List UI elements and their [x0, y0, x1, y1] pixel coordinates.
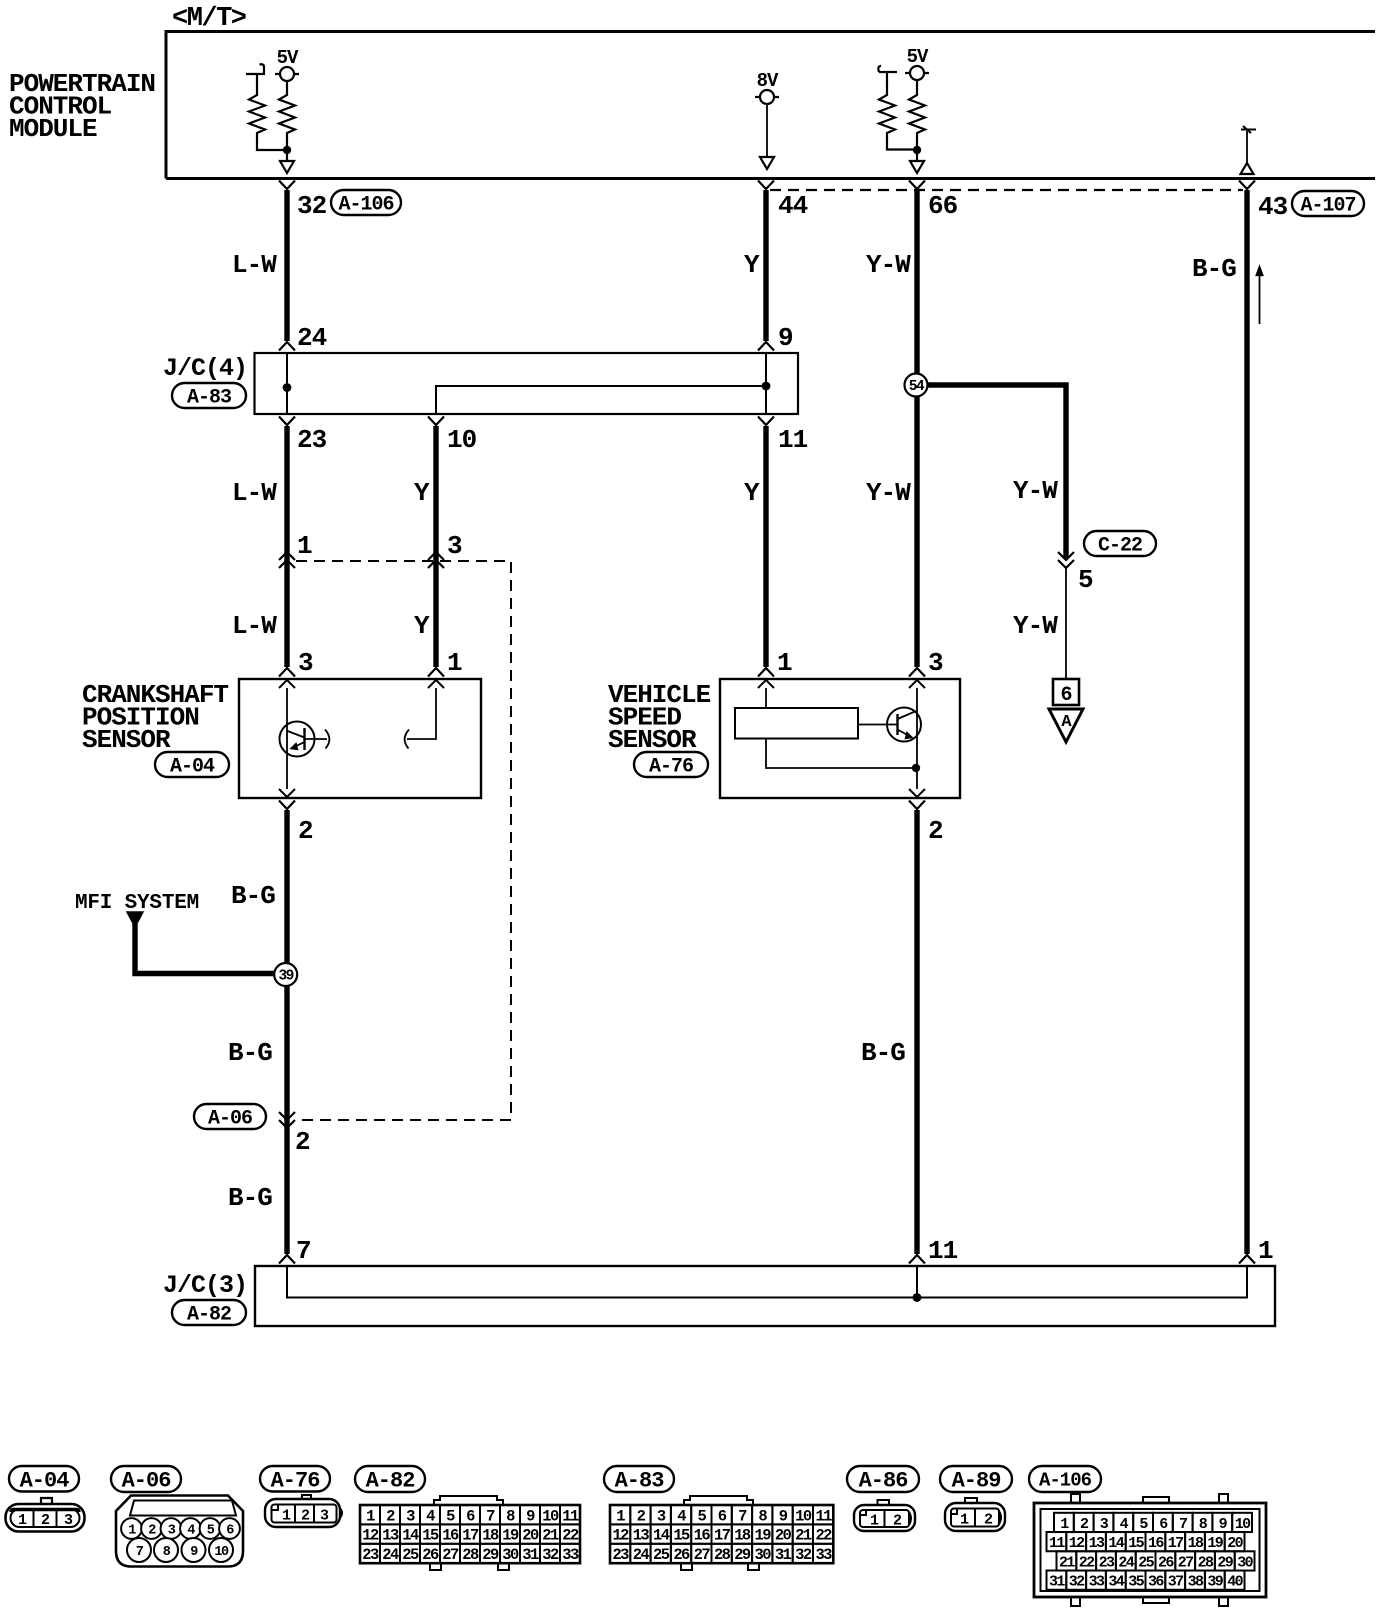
svg-text:20: 20 — [1227, 1535, 1243, 1552]
svg-text:19: 19 — [1207, 1535, 1223, 1552]
svg-text:11: 11 — [778, 425, 808, 455]
PCM input symbol at pin 43 — [1241, 126, 1256, 133]
8V supply node — [755, 96, 779, 98]
wire inside J/C(4) pin9-pin11 — [765, 353, 767, 414]
sensor internal wire pin3 through transistor — [286, 688, 288, 789]
powertrain control module box U1 — [166, 32, 1375, 179]
svg-text:A-82: A-82 — [366, 1469, 415, 1494]
svg-text:3: 3 — [447, 531, 462, 561]
speed sensor pin 2 fork (component) — [909, 789, 925, 797]
pin 44 terminal fork — [758, 181, 774, 190]
junction node in J/C(4) right — [762, 382, 771, 391]
svg-text:24: 24 — [633, 1546, 650, 1564]
junction 54 branch wire — [916, 385, 1066, 558]
pin 43 terminal fork — [1239, 181, 1255, 190]
svg-text:27: 27 — [694, 1546, 711, 1564]
sensor pin 3 fork (harness) — [279, 668, 295, 677]
svg-text:24: 24 — [1118, 1554, 1134, 1571]
svg-text:26: 26 — [422, 1546, 439, 1564]
svg-text:29: 29 — [482, 1546, 499, 1564]
bus bar in J/C(4) pin10 to pin9/11 — [436, 386, 766, 414]
svg-text:12: 12 — [362, 1527, 379, 1545]
pin 24 terminal fork — [279, 342, 295, 351]
svg-text:3: 3 — [657, 1507, 666, 1525]
wire pin3 through transistor to pin 2 — [916, 688, 918, 789]
sensor pin 2 fork (component) — [279, 789, 295, 797]
resistor R4 (PCM internal pull-up right) — [916, 80, 918, 95]
speed sensor pin 1 fork (component) — [758, 680, 774, 688]
transistor Q1 (crankshaft sensor output) — [280, 722, 315, 757]
svg-text:7: 7 — [486, 1507, 495, 1525]
speed sensor pin 1 fork (harness) — [758, 668, 774, 677]
svg-text:26: 26 — [673, 1546, 690, 1564]
svg-text:B-G: B-G — [228, 1183, 272, 1213]
svg-text:38: 38 — [1188, 1574, 1204, 1591]
wire R1 bottom to junction — [257, 136, 287, 150]
pin 7 terminal fork — [279, 1255, 295, 1264]
connector label A-82 pill — [355, 1466, 425, 1492]
wire B-G pin2 to splice 39 — [284, 810, 289, 1254]
svg-text:SENSOR: SENSOR — [608, 725, 697, 755]
svg-text:1: 1 — [1258, 1236, 1273, 1266]
svg-text:10: 10 — [1235, 1516, 1251, 1533]
transistor Q2 (speed sensor output) — [887, 708, 921, 742]
svg-text:7: 7 — [738, 1507, 747, 1525]
svg-text:A-06: A-06 — [208, 1108, 252, 1131]
svg-text:21: 21 — [542, 1527, 559, 1545]
svg-text:29: 29 — [1217, 1554, 1233, 1571]
svg-text:2: 2 — [893, 1513, 902, 1530]
junction connector J/C(3) box — [255, 1266, 1275, 1326]
resistor R1 (PCM internal pull-up left) — [246, 64, 264, 74]
PCM output arrow to pin 66 — [916, 154, 918, 161]
svg-text:27: 27 — [1178, 1554, 1193, 1571]
svg-text:A-83: A-83 — [615, 1469, 665, 1494]
svg-text:1: 1 — [297, 531, 312, 561]
svg-text:54: 54 — [909, 379, 925, 395]
svg-text:20: 20 — [522, 1527, 539, 1545]
svg-text:28: 28 — [1198, 1554, 1214, 1571]
pin 11 terminal fork — [758, 417, 774, 426]
svg-text:66: 66 — [928, 191, 958, 221]
svg-text:27: 27 — [442, 1546, 459, 1564]
connector label A-83 pill — [604, 1466, 674, 1492]
svg-text:5V: 5V — [907, 46, 929, 68]
crankshaft position sensor box A-04 — [239, 679, 481, 798]
svg-text:5V: 5V — [277, 47, 299, 69]
svg-text:28: 28 — [714, 1546, 731, 1564]
pin 23 terminal fork — [279, 417, 295, 426]
svg-text:10: 10 — [542, 1507, 559, 1525]
svg-text:9: 9 — [526, 1507, 535, 1525]
svg-text:25: 25 — [1138, 1554, 1154, 1571]
junction node (R3,R4) — [913, 146, 921, 154]
wire Y-W pin66 down (upper) — [914, 190, 919, 667]
svg-text:Y: Y — [744, 250, 760, 280]
svg-text:3: 3 — [64, 1512, 73, 1529]
svg-text:1: 1 — [960, 1512, 969, 1529]
svg-text:A-106: A-106 — [338, 194, 393, 217]
5V supply node (right) — [905, 72, 929, 74]
wire inside J/C(4) pin24-pin23 — [286, 353, 288, 414]
svg-text:A-86: A-86 — [859, 1469, 908, 1494]
svg-text:23: 23 — [612, 1546, 629, 1564]
speed sensor pin 3 fork (component) — [909, 680, 925, 688]
connector label A-89 pill — [940, 1466, 1012, 1492]
svg-text:A-83: A-83 — [187, 387, 231, 410]
svg-text:1: 1 — [777, 648, 792, 678]
svg-text:10: 10 — [447, 425, 477, 455]
svg-text:39: 39 — [1207, 1574, 1223, 1591]
svg-text:31: 31 — [522, 1546, 539, 1564]
wire Y-W to connector 6 (lower) — [1065, 566, 1067, 679]
connector A-04 face view — [41, 1498, 52, 1504]
sensor pin 2 fork (harness) — [279, 801, 295, 810]
svg-text:Y-W: Y-W — [866, 250, 911, 280]
svg-text:30: 30 — [755, 1546, 772, 1564]
junction node (R1,R2) — [283, 146, 291, 154]
connector label A-76 pill — [260, 1466, 330, 1492]
svg-text:A-82: A-82 — [187, 1304, 231, 1327]
svg-text:17: 17 — [714, 1527, 731, 1545]
svg-text:4: 4 — [677, 1507, 686, 1525]
connector A-89 face view — [965, 1498, 977, 1503]
wire L-W pin32 to J/C(4) pin24 — [284, 190, 289, 341]
destination terminal box 6 — [1053, 679, 1079, 705]
wire Y pin11 to speed sensor pin1 — [763, 426, 768, 667]
connector label A-04 pill — [9, 1466, 79, 1492]
junction connector J/C(4) box — [255, 353, 799, 414]
pin 11 terminal fork (J/C(3)) — [909, 1255, 925, 1264]
svg-text:Y-W: Y-W — [1013, 476, 1058, 506]
svg-text:6: 6 — [1060, 684, 1071, 707]
svg-text:43: 43 — [1258, 192, 1288, 222]
svg-text:15: 15 — [1128, 1535, 1144, 1552]
svg-text:32: 32 — [297, 191, 327, 221]
vehicle speed sensor box A-76 — [720, 679, 960, 798]
svg-text:24: 24 — [297, 323, 327, 353]
svg-text:9: 9 — [779, 1507, 788, 1525]
dashed harness route A-06 — [296, 561, 511, 1120]
signal direction arrow (up) — [1259, 271, 1261, 324]
svg-text:23: 23 — [297, 425, 327, 455]
connector A-06 face view — [116, 1496, 243, 1567]
wire R3 bottom to junction — [887, 136, 917, 150]
connector A-06 pin 1 crossing chevrons — [284, 552, 289, 667]
svg-text:1: 1 — [616, 1507, 625, 1525]
svg-text:22: 22 — [562, 1527, 579, 1545]
svg-text:3: 3 — [320, 1508, 329, 1525]
svg-text:J/C(3): J/C(3) — [163, 1271, 247, 1300]
svg-text:B-G: B-G — [861, 1038, 905, 1068]
svg-text:17: 17 — [462, 1527, 479, 1545]
svg-text:5: 5 — [1078, 565, 1093, 595]
connector label A-83 pill — [172, 383, 246, 408]
connector A-106 face view — [1034, 1503, 1266, 1597]
svg-text:22: 22 — [1079, 1554, 1095, 1571]
svg-text:17: 17 — [1168, 1535, 1183, 1552]
splice junction 54 — [905, 374, 928, 397]
svg-text:36: 36 — [1148, 1574, 1164, 1591]
pin 10 terminal fork — [428, 417, 444, 426]
svg-text:1: 1 — [282, 1508, 291, 1525]
wire Y pin10 to A-06 pin3 — [433, 426, 438, 552]
svg-text:31: 31 — [775, 1546, 792, 1564]
connector label A-06 pill — [194, 1104, 266, 1129]
svg-text:1: 1 — [870, 1513, 879, 1530]
svg-text:13: 13 — [382, 1527, 399, 1545]
MFI system wire stub — [127, 912, 143, 927]
connector label A-76 pill — [634, 752, 708, 777]
svg-text:26: 26 — [1158, 1554, 1174, 1571]
svg-text:11: 11 — [1049, 1535, 1065, 1552]
svg-text:10: 10 — [214, 1545, 229, 1560]
svg-text:<M/T>: <M/T> — [172, 4, 246, 34]
svg-text:12: 12 — [612, 1527, 629, 1545]
svg-text:2: 2 — [386, 1507, 395, 1525]
svg-text:A-06: A-06 — [122, 1469, 171, 1494]
pin 32 terminal fork — [279, 181, 295, 190]
svg-text:8V: 8V — [757, 70, 779, 92]
wire B-G pin43 down — [1244, 190, 1249, 1254]
svg-text:14: 14 — [1108, 1535, 1124, 1552]
svg-text:2: 2 — [984, 1512, 993, 1529]
svg-text:7: 7 — [296, 1236, 311, 1266]
svg-text:32: 32 — [1069, 1574, 1085, 1591]
svg-text:33: 33 — [815, 1546, 832, 1564]
resistor R2 (PCM internal pull-up right) — [286, 81, 288, 95]
svg-text:3: 3 — [406, 1507, 415, 1525]
svg-text:13: 13 — [1089, 1535, 1105, 1552]
svg-text:35: 35 — [1128, 1574, 1144, 1591]
svg-text:L-W: L-W — [232, 250, 277, 280]
svg-text:Y: Y — [414, 478, 430, 508]
svg-text:23: 23 — [1099, 1554, 1115, 1571]
svg-text:A-106: A-106 — [1039, 1470, 1092, 1492]
svg-text:3: 3 — [298, 648, 313, 678]
svg-text:34: 34 — [1108, 1574, 1124, 1591]
svg-text:28: 28 — [462, 1546, 479, 1564]
svg-text:22: 22 — [815, 1527, 832, 1545]
svg-text:6: 6 — [466, 1507, 475, 1525]
svg-text:15: 15 — [673, 1527, 690, 1545]
svg-text:A-04: A-04 — [20, 1468, 70, 1493]
pin 1 terminal fork (J/C(3)) — [1239, 1255, 1255, 1264]
svg-text:Y-W: Y-W — [866, 478, 911, 508]
svg-text:33: 33 — [1089, 1574, 1105, 1591]
svg-text:32: 32 — [795, 1546, 812, 1564]
svg-text:3: 3 — [928, 648, 943, 678]
svg-text:16: 16 — [694, 1527, 711, 1545]
svg-text:31: 31 — [1049, 1574, 1065, 1591]
svg-text:11: 11 — [562, 1507, 579, 1525]
svg-text:A-04: A-04 — [170, 756, 215, 779]
svg-text:29: 29 — [734, 1546, 751, 1564]
svg-text:C-22: C-22 — [1098, 535, 1142, 558]
svg-text:J/C(4): J/C(4) — [163, 354, 247, 383]
connector A-06 pin 3 crossing chevrons — [433, 552, 438, 667]
junction node in J/C(4) left — [283, 383, 292, 392]
svg-text:B-G: B-G — [1192, 254, 1236, 284]
svg-text:2: 2 — [298, 816, 313, 846]
svg-text:11: 11 — [815, 1507, 832, 1525]
pin 66 terminal fork — [909, 181, 925, 190]
svg-text:L-W: L-W — [232, 478, 277, 508]
svg-text:8: 8 — [506, 1507, 515, 1525]
transistor output lead with disconnect hook — [305, 738, 328, 740]
svg-text:Y: Y — [414, 611, 430, 641]
connector A-86 face view — [878, 1500, 890, 1505]
resistor R3 (PCM internal pull-up left) — [878, 66, 897, 95]
speed sensor pin 3 fork (harness) — [909, 668, 925, 677]
5V supply node (left) — [275, 73, 299, 75]
wire pin11 into J/C(3) — [916, 1266, 918, 1298]
connector label C-22 pill — [1084, 531, 1156, 556]
svg-text:1: 1 — [447, 648, 462, 678]
svg-text:4: 4 — [426, 1507, 435, 1525]
wire B-G speed sensor pin2 to J/C(3) pin11 — [914, 810, 919, 1254]
svg-text:21: 21 — [795, 1527, 812, 1545]
bus bar inside J/C(3) — [287, 1266, 1247, 1298]
connector label A-82 pill — [172, 1300, 246, 1325]
connector A-06 pin 2 crossing chevrons — [279, 1112, 295, 1128]
svg-text:MODULE: MODULE — [9, 114, 97, 144]
svg-text:A-76: A-76 — [649, 756, 693, 779]
svg-text:19: 19 — [755, 1527, 772, 1545]
connector A-76 face view — [302, 1495, 311, 1499]
svg-text:A-76: A-76 — [271, 1468, 320, 1493]
junction node (speed sensor output) — [912, 764, 920, 772]
svg-text:24: 24 — [382, 1546, 399, 1564]
svg-text:2: 2 — [41, 1512, 50, 1529]
svg-text:Y: Y — [744, 478, 760, 508]
svg-text:Y-W: Y-W — [1013, 611, 1058, 641]
sensor pin 1 fork (component) — [428, 680, 444, 688]
svg-text:30: 30 — [502, 1546, 519, 1564]
svg-text:15: 15 — [422, 1527, 439, 1545]
svg-text:40: 40 — [1227, 1574, 1243, 1591]
svg-text:16: 16 — [1148, 1535, 1164, 1552]
svg-text:B-G: B-G — [228, 1038, 272, 1068]
wire L-W pin23 to A-06 pin1 — [284, 426, 289, 552]
wire 8V to pin 44 arrow — [766, 104, 768, 157]
connector label A-107 — [1292, 191, 1364, 216]
svg-text:39: 39 — [278, 969, 293, 985]
dashed connector line A-106/A-107 below PCM — [770, 189, 1243, 191]
svg-text:37: 37 — [1168, 1574, 1183, 1591]
PCM output arrow to pin 32 — [286, 154, 288, 161]
connector C-22 crossing chevrons — [1058, 552, 1074, 568]
svg-text:SENSOR: SENSOR — [82, 725, 171, 755]
connector label A-04 pill — [155, 752, 229, 777]
svg-text:14: 14 — [402, 1527, 419, 1545]
svg-text:12: 12 — [1069, 1535, 1085, 1552]
junction node in J/C(3) — [913, 1293, 922, 1302]
svg-text:33: 33 — [562, 1546, 579, 1564]
svg-text:2: 2 — [295, 1127, 310, 1157]
svg-text:16: 16 — [442, 1527, 459, 1545]
off-page triangle A — [1049, 709, 1083, 742]
svg-text:5: 5 — [446, 1507, 455, 1525]
svg-text:14: 14 — [653, 1527, 670, 1545]
svg-text:44: 44 — [778, 191, 808, 221]
svg-text:30: 30 — [1237, 1554, 1253, 1571]
svg-text:6: 6 — [718, 1507, 727, 1525]
sensor pin 1 fork (harness) — [428, 668, 444, 677]
svg-text:7: 7 — [1179, 1516, 1187, 1533]
svg-text:25: 25 — [402, 1546, 419, 1564]
svg-text:L-W: L-W — [232, 611, 277, 641]
svg-text:1: 1 — [366, 1507, 375, 1525]
svg-text:A-89: A-89 — [952, 1469, 1001, 1494]
sensor pin 3 fork (component) — [279, 680, 295, 688]
svg-text:20: 20 — [775, 1527, 792, 1545]
connector label A-06 pill — [111, 1466, 181, 1492]
svg-text:21: 21 — [1059, 1554, 1075, 1571]
svg-text:23: 23 — [362, 1546, 379, 1564]
svg-text:2: 2 — [301, 1508, 310, 1525]
svg-text:10: 10 — [795, 1507, 812, 1525]
svg-text:25: 25 — [653, 1546, 670, 1564]
svg-text:B-G: B-G — [231, 881, 275, 911]
svg-text:8: 8 — [758, 1507, 767, 1525]
svg-text:18: 18 — [482, 1527, 499, 1545]
connector label A-86 pill — [847, 1466, 919, 1492]
pin 9 terminal fork — [758, 342, 774, 351]
svg-text:2: 2 — [928, 816, 943, 846]
splice junction 39 — [274, 963, 297, 986]
svg-text:32: 32 — [542, 1546, 559, 1564]
svg-text:19: 19 — [502, 1527, 519, 1545]
svg-text:9: 9 — [778, 323, 793, 353]
svg-text:11: 11 — [928, 1236, 958, 1266]
svg-text:A-107: A-107 — [1300, 195, 1355, 218]
speed sensor element (reed) box — [765, 688, 767, 708]
svg-text:5: 5 — [697, 1507, 706, 1525]
sensor internal wire pin1 with disconnect hook — [407, 688, 436, 739]
svg-text:2: 2 — [637, 1507, 646, 1525]
svg-text:18: 18 — [1188, 1535, 1204, 1552]
svg-text:13: 13 — [633, 1527, 650, 1545]
svg-text:1: 1 — [18, 1512, 27, 1529]
connector A-82 face view — [434, 1496, 503, 1505]
connector A-83 face view — [684, 1496, 753, 1505]
connector label A-106 pill — [1029, 1466, 1101, 1492]
wire Y pin44 to J/C(4) pin9 — [763, 190, 768, 341]
svg-text:18: 18 — [734, 1527, 751, 1545]
speed sensor pin 2 fork (harness) — [909, 801, 925, 810]
wire element to output junction — [766, 739, 916, 769]
connector label A-106 — [331, 190, 401, 215]
